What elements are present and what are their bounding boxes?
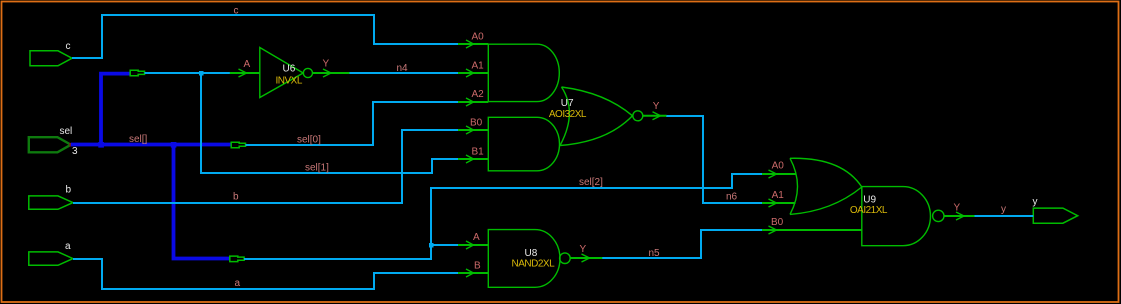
U7 AND1 body	[488, 44, 559, 101]
U9 OR body	[790, 158, 798, 214]
wire net c: pin c up and across top to U7 A0	[72, 15, 460, 58]
bus tap to inverter input	[130, 70, 144, 76]
svg-text:sel[0]: sel[0]	[297, 135, 321, 146]
U8 output stub Y	[570, 257, 603, 259]
wire net sel[0]: tap right, up to U7 A2	[246, 102, 461, 145]
U8 input stub A	[458, 244, 488, 246]
input pin a	[29, 252, 73, 265]
svg-text:AOI32XL: AOI32XL	[549, 109, 587, 120]
svg-text:B0: B0	[771, 217, 784, 228]
AOI gate U7 AOI32XL	[458, 40, 667, 171]
svg-text:A2: A2	[472, 89, 485, 100]
bus junction 2	[171, 142, 177, 148]
svg-text:INVXL: INVXL	[276, 76, 303, 87]
svg-text:c: c	[66, 41, 71, 52]
svg-text:Y: Y	[580, 244, 587, 255]
svg-text:c: c	[234, 6, 239, 17]
wire net sel[1]: junction down, right, up to U7 B1	[201, 73, 460, 173]
svg-text:A0: A0	[772, 161, 785, 172]
svg-text:B1: B1	[472, 146, 485, 157]
svg-text:OAI21XL: OAI21XL	[850, 205, 888, 216]
wire net y: U9 out to pin y	[974, 215, 1033, 217]
svg-text:B: B	[474, 261, 481, 272]
svg-text:A1: A1	[472, 60, 485, 71]
OAI gate U9 OAI21XL	[762, 158, 975, 245]
svg-text:b: b	[233, 192, 239, 203]
junction on sel[2] net at U8 A	[429, 243, 434, 248]
svg-text:a: a	[235, 278, 241, 289]
U9 input stub A1	[762, 202, 796, 204]
bus junction 1	[98, 142, 104, 148]
U8 input stub B	[458, 272, 488, 274]
wire net sel[2]: tap right, up past U8 A junction, right, up to U9 A0	[244, 174, 763, 259]
wire tap to inverter A	[145, 72, 232, 74]
U7 input stub B1	[458, 158, 488, 160]
U9 NAND body	[862, 187, 931, 246]
junction on inverter input net	[199, 71, 204, 76]
wire net a: pin a right, down, right, up to U8 B	[73, 259, 460, 289]
U7 output stub Y	[643, 115, 667, 117]
bus tap sel[2]	[230, 256, 244, 262]
svg-text:sel[1]: sel[1]	[305, 163, 329, 174]
svg-text:Y: Y	[954, 203, 961, 214]
sel pin tip dot	[69, 143, 72, 147]
U7 AND2 body	[488, 117, 559, 171]
output pin y	[1033, 208, 1077, 223]
svg-text:b: b	[66, 185, 72, 196]
input bus pin sel	[29, 137, 71, 152]
input pin b	[29, 196, 73, 209]
svg-text:sel[2]: sel[2]	[579, 177, 603, 188]
svg-text:B0: B0	[470, 118, 483, 129]
NAND gate U8 NAND2XL	[458, 230, 602, 288]
U9 input stub A0	[762, 173, 797, 175]
svg-text:n6: n6	[726, 192, 738, 203]
svg-text:NAND2XL: NAND2XL	[512, 258, 556, 269]
svg-text:U7: U7	[561, 98, 574, 109]
svg-text:Y: Y	[653, 101, 660, 112]
svg-text:sel: sel	[60, 126, 73, 137]
svg-text:A: A	[244, 59, 251, 70]
svg-text:sel[]: sel[]	[129, 134, 148, 145]
U6 output stub Y	[313, 72, 350, 74]
bus segment horizontal from sel pin	[71, 143, 231, 147]
wire net b: pin b right, up to U7 B0	[73, 130, 460, 203]
svg-text:y: y	[1033, 197, 1038, 208]
U7 input stub B0	[458, 129, 488, 131]
svg-text:3: 3	[72, 146, 78, 157]
svg-text:n4: n4	[397, 63, 409, 74]
U6 input stub A	[230, 72, 260, 74]
bus segment down to sel[2] tap	[174, 145, 231, 259]
svg-text:a: a	[65, 241, 71, 252]
svg-text:Y: Y	[323, 59, 330, 70]
bus sel (thick blue)	[71, 74, 231, 259]
svg-text:U9: U9	[863, 194, 876, 205]
wire net n6: U7 out right, down to U9 A1	[666, 116, 763, 203]
svg-text:A: A	[473, 232, 480, 243]
inverter U6 INVXL	[230, 48, 350, 98]
svg-text:A1: A1	[772, 190, 785, 201]
wire net n5: U8 out right, up to U9 B0	[602, 230, 763, 258]
U8 body	[488, 230, 560, 288]
U9 output stub Y	[944, 215, 975, 217]
U9 input stub B0	[762, 229, 862, 231]
svg-text:A0: A0	[472, 32, 485, 43]
U7 input stub A1	[458, 72, 488, 74]
wire net n4: inverter out to U7 A1	[349, 72, 460, 74]
wire U8 A from junction	[431, 244, 460, 246]
svg-text:y: y	[1001, 204, 1006, 215]
input pin c	[30, 51, 72, 66]
bus segment up to inverter tap	[101, 74, 131, 147]
U7 input stub A0	[458, 43, 488, 45]
U7 NOR body	[560, 87, 569, 146]
svg-text:n5: n5	[649, 248, 661, 259]
bus tap sel[0]	[231, 142, 245, 148]
U7 input stub A2	[458, 101, 488, 103]
svg-text:U6: U6	[283, 63, 296, 74]
